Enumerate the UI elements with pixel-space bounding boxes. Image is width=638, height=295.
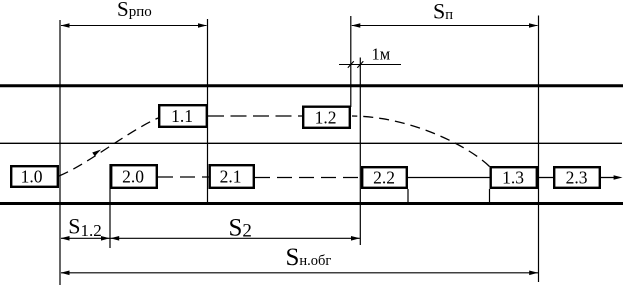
svg-text:Sрпо: Sрпо	[117, 0, 152, 21]
svg-text:2.1: 2.1	[220, 167, 242, 187]
svg-text:1.2: 1.2	[315, 108, 337, 128]
svg-text:1м: 1м	[372, 45, 391, 64]
svg-text:1.1: 1.1	[171, 106, 193, 126]
svg-text:2.3: 2.3	[566, 168, 588, 188]
svg-text:2.2: 2.2	[373, 168, 395, 188]
svg-text:1.3: 1.3	[502, 168, 524, 188]
svg-text:2.0: 2.0	[122, 167, 144, 187]
svg-text:1.0: 1.0	[21, 167, 43, 187]
